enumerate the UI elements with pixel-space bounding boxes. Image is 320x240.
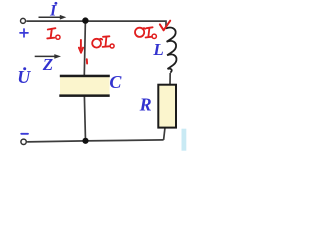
wire: capacitor branch upper segment [84, 21, 85, 76]
red handwritten label I0 (resonance current) [47, 28, 60, 39]
red arrow down capacitor branch [79, 40, 87, 64]
red handwritten label QI0 (capacitor branch) [92, 36, 114, 48]
capacitor C: cream dielectric fill [60, 77, 110, 95]
resistor R body [158, 85, 176, 128]
red dash on wire below arrow [86, 59, 88, 63]
arrow for Z (impedance looking in) [35, 54, 61, 59]
label + (blue plus) [20, 29, 28, 37]
wire: bottom horizontal [27, 140, 164, 142]
arrow for current I (top) [39, 15, 67, 20]
label - (blue minus) [21, 133, 28, 135]
node: bottom junction [82, 138, 88, 144]
svg-text:C: C [109, 72, 122, 92]
capacitor C: bottom plate [59, 94, 109, 97]
light blue partial box at right edge [182, 129, 187, 151]
svg-text:I: I [49, 3, 57, 20]
terminal bottom-left [21, 139, 26, 144]
terminal top-left [21, 18, 26, 23]
wire: coil to resistor [169, 73, 171, 84]
node: top junction [82, 17, 88, 23]
svg-text:Z: Z [42, 55, 53, 74]
capacitor C: top plate [60, 75, 110, 78]
red check arrow pointing to inductor branch [160, 21, 170, 31]
svg-text:R: R [139, 94, 152, 114]
wire: capacitor branch lower segment [84, 97, 85, 141]
red handwritten label QI0 (inductor branch) [135, 27, 156, 38]
inductor L coil (3 loops) [166, 28, 176, 73]
svg-text:L: L [152, 40, 163, 59]
wire: resistor bottom stub [164, 128, 165, 140]
wire: top horizontal with right corner down [26, 21, 166, 29]
